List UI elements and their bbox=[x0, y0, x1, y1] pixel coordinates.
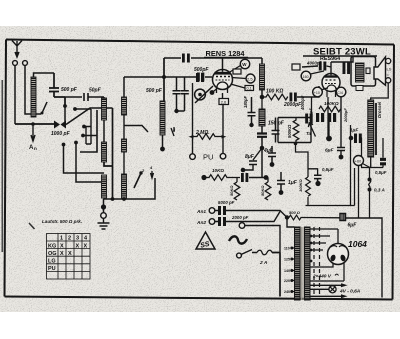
wire L6 down bbox=[162, 135, 164, 149]
svg-text:X: X bbox=[76, 243, 80, 249]
wire L2b to bus bbox=[104, 108, 113, 199]
node dot 2 bbox=[260, 146, 265, 151]
box 150pF network bbox=[278, 118, 311, 143]
svg-text:4000pF: 4000pF bbox=[300, 95, 305, 111]
coil L4a bbox=[122, 139, 127, 152]
wire L3 tap bbox=[124, 115, 148, 139]
wire to switch bank bbox=[66, 108, 113, 152]
svg-text:OG: OG bbox=[48, 251, 57, 257]
wire antenna bus bbox=[15, 123, 56, 125]
resistor 50K vertical bbox=[234, 182, 240, 200]
svg-text:LS: LS bbox=[387, 67, 392, 72]
svg-text:X: X bbox=[60, 251, 64, 257]
terminal PU2 bbox=[220, 153, 226, 159]
svg-text:2 A: 2 A bbox=[259, 260, 268, 266]
dashed shield lines bbox=[314, 227, 320, 294]
capacitor 180pF bbox=[248, 97, 256, 124]
wire coil L1 top bbox=[34, 73, 55, 77]
triangle warning bbox=[196, 232, 215, 249]
svg-text:1: 1 bbox=[60, 236, 63, 242]
svg-text:0,5μF: 0,5μF bbox=[322, 167, 334, 172]
switch table bbox=[47, 234, 91, 280]
capacitor 8uF box bbox=[340, 214, 346, 221]
capacitor 50pF bbox=[54, 93, 104, 101]
capacitor 0,5uF right bbox=[380, 158, 386, 161]
coil L5 bbox=[102, 175, 107, 198]
capacitor coupling bbox=[343, 63, 346, 75]
node An arrow bbox=[31, 124, 35, 141]
bus h205 bbox=[306, 125, 355, 206]
circle 160 bbox=[301, 71, 311, 81]
node An junction bbox=[31, 122, 35, 126]
pen mark bbox=[29, 223, 35, 229]
svg-text:100KΩ: 100KΩ bbox=[298, 178, 303, 192]
wire mid bbox=[54, 97, 65, 124]
title SEIBT 23WL bbox=[303, 47, 377, 63]
svg-text:500 pF: 500 pF bbox=[61, 87, 78, 93]
svg-text:125: 125 bbox=[284, 258, 290, 262]
svg-text:1064: 1064 bbox=[348, 239, 367, 249]
tube RENS1284 bbox=[213, 58, 233, 93]
svg-text:1μF: 1μF bbox=[350, 128, 358, 133]
svg-text:50KΩ: 50KΩ bbox=[229, 185, 234, 196]
capacitor pair big bbox=[316, 113, 319, 122]
switch Ta bbox=[308, 123, 315, 137]
wire top bus y58 bbox=[164, 57, 223, 59]
svg-text:2000pF: 2000pF bbox=[343, 108, 348, 123]
wire x164 vertical bbox=[163, 58, 165, 101]
switch arm band bbox=[134, 173, 141, 188]
svg-text:6μF: 6μF bbox=[348, 223, 358, 229]
svg-text:50pF: 50pF bbox=[89, 88, 102, 94]
transformer tap labels bbox=[284, 247, 290, 295]
svg-text:4V - 0,6A: 4V - 0,6A bbox=[339, 289, 361, 295]
fuse 03A bbox=[369, 168, 371, 179]
antenna symbol bbox=[12, 41, 22, 58]
circle +60 bbox=[354, 156, 364, 166]
circle CW bbox=[336, 87, 346, 97]
capacitor shunt b bbox=[177, 78, 189, 112]
svg-text:An1: An1 bbox=[196, 209, 206, 215]
speaker bbox=[374, 57, 386, 86]
coil L1 antenna bbox=[31, 77, 36, 117]
svg-text:500 pF: 500 pF bbox=[146, 88, 163, 94]
svg-text:2: 2 bbox=[68, 236, 71, 242]
svg-text:W: W bbox=[242, 62, 247, 67]
wire antenna down bbox=[15, 66, 41, 125]
trimmer circle bbox=[195, 89, 206, 100]
svg-text:180pF: 180pF bbox=[243, 95, 248, 108]
svg-text:LG: LG bbox=[48, 259, 56, 265]
svg-text:n: n bbox=[34, 146, 37, 151]
wire L5 to ground node bbox=[103, 198, 106, 216]
capacitor 1000pF bowtie bbox=[54, 121, 60, 129]
svg-text:0,5μF: 0,5μF bbox=[375, 170, 387, 175]
capacitor 2000pF series bbox=[290, 93, 293, 102]
coil L2b bbox=[102, 142, 107, 162]
filament wires 4V bbox=[310, 285, 344, 296]
capacitor shunt x341 bbox=[337, 97, 345, 155]
svg-text:KG: KG bbox=[48, 243, 56, 249]
ground terminal circle bbox=[101, 213, 107, 219]
tap stubs bbox=[292, 248, 295, 292]
secondary tap wires bbox=[310, 229, 344, 281]
box 2.6 cathode bbox=[219, 99, 229, 105]
coil L2 bbox=[102, 98, 107, 120]
antenna terminals bbox=[13, 61, 18, 66]
svg-text:1000 pF: 1000 pF bbox=[51, 131, 71, 137]
svg-text:2,6: 2,6 bbox=[221, 99, 227, 104]
capacitor 500pF shunt a bbox=[173, 78, 181, 112]
svg-text:500KΩ: 500KΩ bbox=[287, 124, 292, 138]
arm diagonal bbox=[195, 86, 213, 103]
svg-text:X: X bbox=[84, 243, 88, 249]
capacitor 1uF right bbox=[277, 172, 285, 191]
svg-text:10KΩ: 10KΩ bbox=[212, 168, 224, 173]
svg-text:5000 pF: 5000 pF bbox=[218, 200, 235, 205]
coil L4b bbox=[122, 174, 127, 198]
choke Drossel bbox=[368, 100, 374, 157]
bus h167 bbox=[361, 167, 383, 169]
svg-text:An2: An2 bbox=[196, 220, 206, 226]
capacitor series top bus bbox=[182, 54, 185, 63]
wire L2 down bbox=[103, 97, 105, 142]
wire grid bus y77 bbox=[124, 76, 212, 78]
wire switch bank stubs bbox=[75, 109, 97, 144]
circle +10 bbox=[313, 87, 323, 97]
switch S1 bbox=[42, 102, 47, 113]
svg-text:0,1: 0,1 bbox=[247, 87, 252, 91]
svg-text:+10: +10 bbox=[314, 91, 320, 95]
svg-text:110: 110 bbox=[284, 247, 290, 251]
svg-text:2000 pF: 2000 pF bbox=[231, 215, 249, 220]
svg-text:RES964: RES964 bbox=[320, 56, 340, 62]
resistor block hatched bbox=[259, 109, 265, 126]
svg-text:1μF: 1μF bbox=[288, 180, 298, 186]
svg-text:Ta: Ta bbox=[306, 131, 312, 136]
svg-text:6μF: 6μF bbox=[325, 148, 335, 154]
variable capacitor C2 stub bbox=[74, 141, 78, 145]
svg-text:0,3 A: 0,3 A bbox=[374, 188, 385, 193]
capacitor 500pF bbox=[49, 73, 59, 97]
coil anode bbox=[260, 64, 265, 90]
box 16 bbox=[292, 64, 300, 70]
svg-text:C/4: C/4 bbox=[337, 91, 343, 95]
box 0.1 bbox=[245, 86, 254, 91]
box B bbox=[356, 86, 363, 91]
output transformer bbox=[351, 57, 376, 87]
wire down from box bbox=[296, 143, 318, 178]
svg-text:RENS 1284: RENS 1284 bbox=[206, 49, 246, 58]
switch mains bbox=[237, 253, 242, 258]
svg-text:X: X bbox=[60, 243, 64, 249]
wire L4 mid bbox=[123, 152, 125, 174]
wire x124 down bbox=[123, 77, 125, 97]
node dot bbox=[260, 95, 265, 100]
svg-text:Drossel: Drossel bbox=[377, 101, 382, 118]
svg-text:3: 3 bbox=[76, 236, 79, 242]
svg-text:X: X bbox=[68, 251, 72, 257]
page left edge streak bbox=[2, 80, 4, 252]
capacitor 500pF series bbox=[197, 73, 200, 82]
rectifier wire bbox=[337, 229, 339, 243]
resistor vertical 2 bbox=[265, 182, 271, 200]
capacitor 800pF left of tube bbox=[196, 73, 199, 82]
capacitor 0.5uF bbox=[314, 175, 322, 181]
capacitor grid 4000pF bbox=[319, 62, 322, 71]
tube 1064 bbox=[328, 244, 349, 265]
wire RES top bus bbox=[302, 57, 353, 68]
circle 2.5 bbox=[246, 74, 255, 83]
junction dot bbox=[101, 204, 106, 209]
svg-text:500 Ω: 500 Ω bbox=[289, 210, 301, 215]
dot near tube bbox=[210, 90, 215, 95]
resistor 10K bottom bbox=[201, 175, 206, 180]
svg-text:2,5: 2,5 bbox=[247, 77, 253, 82]
terminal PU1 bbox=[190, 154, 196, 160]
transformer core bbox=[301, 227, 303, 300]
svg-text:+60: +60 bbox=[355, 160, 361, 164]
wave symbol bbox=[229, 236, 247, 243]
contact 4 bbox=[151, 171, 154, 178]
svg-text:500pF: 500pF bbox=[194, 67, 209, 73]
svg-text:50KΩ: 50KΩ bbox=[260, 185, 265, 196]
svg-text:150 pF: 150 pF bbox=[268, 121, 285, 127]
wire choke bottom bbox=[370, 157, 372, 168]
coil L6 long bbox=[160, 101, 165, 135]
lamp bbox=[329, 286, 336, 293]
svg-text:100KΩ: 100KΩ bbox=[324, 101, 339, 106]
svg-text:220: 220 bbox=[284, 279, 290, 283]
svg-text:4000pf: 4000pf bbox=[306, 61, 321, 66]
svg-text:2×440 V: 2×440 V bbox=[312, 274, 332, 280]
wires PU bbox=[193, 83, 224, 154]
circle W bbox=[240, 59, 249, 68]
ground symbol bbox=[98, 219, 110, 230]
tube RES964 bbox=[322, 62, 340, 97]
svg-text:Lautstr. 500 Ω prk.: Lautstr. 500 Ω prk. bbox=[42, 219, 82, 224]
wire L4b down bus bbox=[104, 178, 156, 199]
capacitor series bottom bbox=[241, 173, 244, 182]
svg-text:140: 140 bbox=[284, 269, 290, 273]
border frame bbox=[5, 40, 395, 300]
wire speaker to choke bbox=[371, 83, 389, 100]
terminal aux bbox=[239, 223, 245, 229]
riser to 6uF bbox=[358, 166, 360, 218]
resistor 100K vertical right bbox=[306, 177, 311, 206]
vertical bus x262 bbox=[261, 58, 263, 178]
junction dot big bbox=[326, 136, 332, 142]
variable capacitor C1 stubs bbox=[64, 97, 66, 105]
contact 3 bbox=[171, 127, 174, 136]
box A bbox=[233, 69, 241, 74]
capacitor block thick bbox=[257, 134, 267, 137]
transformer winding left bbox=[295, 227, 301, 300]
coil L3 bbox=[122, 97, 127, 115]
resistor 500 ohm bbox=[285, 215, 289, 219]
svg-text:PU: PU bbox=[48, 266, 56, 272]
label RENS1284 bbox=[204, 49, 248, 58]
fuse 2A bbox=[257, 250, 272, 255]
svg-text:240: 240 bbox=[284, 290, 290, 294]
transformer winding right bbox=[305, 227, 311, 300]
svg-text:160: 160 bbox=[303, 75, 309, 79]
svg-text:PU: PU bbox=[203, 153, 213, 162]
